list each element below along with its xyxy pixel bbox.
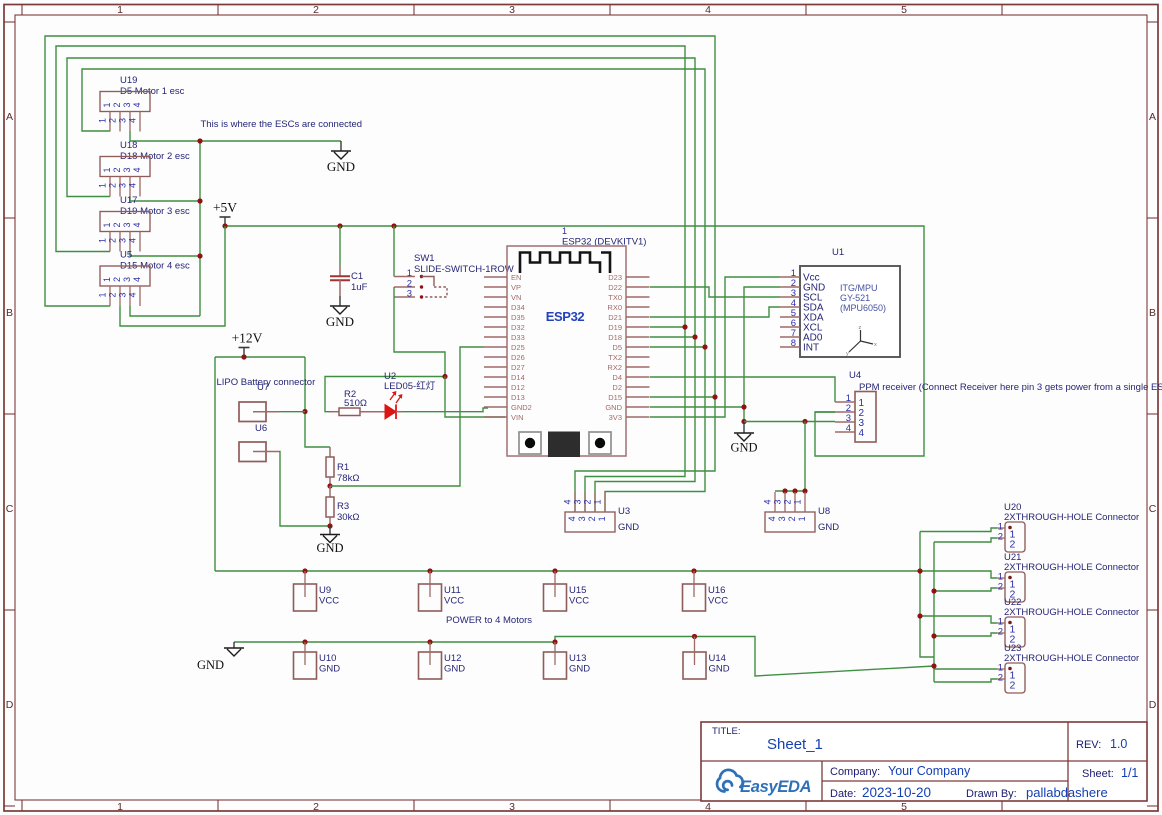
wire ESP32 D4 to U4 pin1 [650, 377, 835, 402]
svg-text:1: 1 [797, 516, 807, 521]
svg-text:VIN: VIN [511, 413, 524, 422]
junction U10 GND [302, 639, 307, 644]
wire U22 pin1 [920, 616, 997, 623]
junction +5V node [222, 223, 227, 228]
svg-text:TITLE:: TITLE: [712, 726, 741, 737]
wire U20 pin1 [920, 528, 997, 532]
connector U21 [997, 572, 1025, 603]
svg-text:1: 1 [117, 4, 123, 16]
svg-text:RX0: RX0 [607, 303, 622, 312]
wire +5V to U5 pin2 [120, 226, 225, 326]
connector U7 (battery +) [239, 402, 279, 422]
wire ground chain vertical to U1 GND [744, 287, 780, 422]
svg-text:x: x [874, 342, 877, 348]
svg-text:1uF: 1uF [351, 282, 368, 293]
svg-text:2: 2 [108, 238, 118, 243]
svg-text:GND: GND [730, 441, 757, 455]
wire ESC ground bus vertical [199, 141, 201, 316]
wire U18 pin3 to bus [130, 197, 200, 202]
svg-text:PPM receiver (Connect Receiver: PPM receiver (Connect Receiver here pin … [859, 382, 1162, 393]
svg-text:D33: D33 [511, 333, 525, 342]
svg-text:2: 2 [108, 292, 118, 297]
resistor R2 [330, 408, 385, 416]
svg-text:Drawn By:: Drawn By: [966, 788, 1017, 800]
junction harness GND diagonal [931, 663, 936, 668]
svg-text:3: 3 [577, 516, 587, 521]
connector U11 (VCC) [419, 571, 442, 611]
ground below C1 [326, 296, 354, 329]
svg-text:5: 5 [901, 4, 907, 16]
wire ESP32 D15 pin to net [650, 396, 715, 398]
svg-text:U4: U4 [849, 370, 861, 381]
svg-text:78kΩ: 78kΩ [337, 473, 359, 484]
junction +5V rail at SW1 [391, 223, 396, 228]
svg-text:VCC: VCC [444, 596, 464, 607]
svg-text:3: 3 [122, 277, 132, 282]
svg-text:1: 1 [98, 118, 108, 123]
svg-text:2: 2 [783, 499, 793, 504]
svg-text:D4: D4 [612, 373, 622, 382]
svg-text:1: 1 [793, 499, 803, 504]
svg-text:U19: U19 [120, 75, 137, 86]
svg-text:D26: D26 [511, 353, 525, 362]
svg-text:VCC: VCC [319, 596, 339, 607]
svg-text:C: C [1149, 503, 1157, 515]
junction U4 pin3 / U8 column [802, 419, 807, 424]
svg-text:4: 4 [705, 4, 711, 16]
svg-text:3: 3 [118, 183, 128, 188]
svg-text:1: 1 [593, 499, 603, 504]
svg-text:D25: D25 [511, 343, 525, 352]
svg-text:2: 2 [108, 183, 118, 188]
svg-text:3V3: 3V3 [609, 413, 622, 422]
junction ESC gnd 3 [197, 253, 202, 258]
svg-text:GND: GND [818, 522, 839, 533]
svg-text:B: B [6, 307, 13, 319]
svg-text:2XTHROUGH-HOLE Connector: 2XTHROUGH-HOLE Connector [1004, 607, 1139, 618]
svg-text:4: 4 [563, 499, 573, 504]
svg-text:U11: U11 [444, 585, 461, 596]
svg-text:U6: U6 [255, 423, 267, 434]
svg-text:D14: D14 [511, 373, 525, 382]
svg-text:U14: U14 [709, 653, 726, 664]
connector U8 [763, 492, 816, 532]
junction U8 pin3 [782, 488, 787, 493]
connector U4 PPM receiver [835, 392, 876, 443]
wire GND rail left [234, 637, 934, 677]
svg-text:U8: U8 [818, 506, 830, 517]
wire D5 net (U19 pin1 to ESP32 D5 and U3 pin1) [82, 69, 705, 512]
svg-text:30kΩ: 30kΩ [337, 512, 359, 523]
junction U11 VCC [427, 568, 432, 573]
svg-text:2: 2 [998, 582, 1003, 593]
wire ESP32 D19 pin to net [650, 326, 685, 328]
svg-text:U9: U9 [319, 585, 331, 596]
junction U9 VCC [302, 568, 307, 573]
wire right harness column A [920, 532, 934, 658]
svg-text:A: A [1149, 111, 1156, 123]
wire D15 net (U5 pin1 to ESP32 D15 and U3 pin4) [45, 36, 715, 512]
svg-text:GND: GND [605, 403, 622, 412]
svg-text:1: 1 [102, 102, 112, 107]
svg-text:D22: D22 [608, 283, 622, 292]
wire U22 pin2 [934, 633, 997, 636]
svg-text:3: 3 [407, 289, 412, 300]
svg-text:D21: D21 [608, 313, 622, 322]
svg-text:SLIDE-SWITCH-1ROW: SLIDE-SWITCH-1ROW [414, 264, 514, 275]
svg-text:2: 2 [998, 627, 1003, 638]
svg-text:TX2: TX2 [608, 353, 622, 362]
svg-text:+12V: +12V [232, 331, 263, 346]
svg-text:C: C [6, 503, 14, 515]
svg-text:3: 3 [118, 238, 128, 243]
svg-text:D23: D23 [608, 273, 622, 282]
svg-text:D35: D35 [511, 313, 525, 322]
svg-text:2: 2 [583, 499, 593, 504]
wire SW1 pin2 to VIN node [394, 287, 445, 377]
connector U10 (GND) [294, 642, 317, 679]
svg-text:D: D [1149, 699, 1157, 711]
svg-text:3: 3 [573, 499, 583, 504]
svg-text:GND: GND [709, 664, 730, 675]
svg-text:2: 2 [108, 118, 118, 123]
svg-text:4: 4 [132, 167, 142, 172]
junction ESC gnd 2 [197, 198, 202, 203]
svg-text:2: 2 [587, 516, 597, 521]
wire U17 pin3 to bus [130, 252, 200, 257]
svg-text:U12: U12 [444, 653, 461, 664]
resistor R3 [326, 486, 334, 526]
connector U9 (VCC) [294, 571, 317, 611]
svg-text:D2: D2 [612, 383, 622, 392]
wire ground chain to U4 pin3 [744, 421, 835, 423]
svg-text:1: 1 [407, 268, 412, 279]
svg-text:D34: D34 [511, 303, 525, 312]
svg-text:2: 2 [112, 102, 122, 107]
svg-text:1: 1 [117, 801, 123, 813]
svg-text:2XTHROUGH-HOLE Connector: 2XTHROUGH-HOLE Connector [1004, 653, 1139, 664]
svg-text:D13: D13 [511, 393, 525, 402]
svg-text:GND: GND [197, 658, 224, 672]
connector U3 [563, 492, 616, 532]
svg-text:This is where the ESCs are con: This is where the ESCs are connected [201, 119, 363, 130]
svg-text:2: 2 [112, 167, 122, 172]
wire U20 pin2 [934, 538, 997, 542]
svg-text:Your Company: Your Company [888, 764, 971, 778]
svg-text:1: 1 [597, 516, 607, 521]
connector U16 (VCC) [683, 571, 706, 611]
svg-text:EasyEDA: EasyEDA [740, 778, 811, 796]
svg-text:U7: U7 [257, 382, 269, 393]
wire ESP32 GND to ground chain [650, 406, 744, 408]
wire ESC ground bus U19 pin3 to GND [130, 131, 341, 141]
wire +12V right rail down [305, 357, 330, 447]
ground below ESP32 right [730, 422, 757, 455]
svg-text:U15: U15 [569, 585, 586, 596]
wire VIN node down to ESP32 VIN [445, 377, 505, 418]
svg-text:R3: R3 [337, 501, 349, 512]
junction D19 [682, 324, 687, 329]
power symbol +5V [213, 200, 237, 226]
EasyEDA logo [717, 770, 811, 796]
svg-text:INT: INT [803, 343, 819, 354]
junction U8 pin2 [792, 488, 797, 493]
svg-text:U16: U16 [708, 585, 725, 596]
junction ESC gnd 1 [197, 138, 202, 143]
svg-text:U13: U13 [569, 653, 586, 664]
connector U22 [997, 617, 1025, 648]
wire D18 net (U18 pin1 to ESP32 D18 and U3 pin2) [67, 58, 695, 512]
svg-text:4: 4 [705, 801, 711, 813]
wire U23 pin1 [934, 668, 997, 670]
svg-text:VCC: VCC [569, 596, 589, 607]
junction U16 VCC [691, 568, 696, 573]
svg-text:D12: D12 [511, 383, 525, 392]
svg-text:LED05-红灯: LED05-红灯 [384, 380, 436, 392]
wire D19 net (U17 pin1 to ESP32 D19 and U3 pin3) [56, 46, 685, 512]
switch SW1 [394, 268, 447, 300]
junction D5 [702, 344, 707, 349]
svg-text:D19: D19 [608, 323, 622, 332]
svg-text:GND2: GND2 [511, 403, 532, 412]
junction U14 GND [692, 634, 697, 639]
junction U15 VCC [552, 568, 557, 573]
connector U23 [997, 663, 1025, 694]
svg-text:VN: VN [511, 293, 521, 302]
svg-text:RX2: RX2 [607, 363, 622, 372]
svg-text:4: 4 [128, 118, 138, 123]
svg-text:Date:: Date: [830, 788, 856, 800]
svg-text:ITG/MPU: ITG/MPU [840, 283, 878, 293]
wire D21 to U1 SDA [650, 307, 780, 317]
wire +5V rail [225, 226, 924, 456]
svg-text:4: 4 [767, 516, 777, 521]
wire ESP32 D18 pin to net [650, 336, 695, 338]
connector U18 [98, 157, 151, 197]
wire +12V left rail down to VCC rail [214, 357, 216, 571]
svg-text:4: 4 [132, 277, 142, 282]
svg-text:SW1: SW1 [414, 253, 435, 264]
connector U5 [98, 266, 151, 306]
svg-text:GND: GND [316, 541, 343, 555]
svg-text:3: 3 [773, 499, 783, 504]
wire U21 pin2 [934, 588, 997, 591]
svg-text:VCC: VCC [708, 596, 728, 607]
wire U21 pin1 [920, 571, 997, 578]
svg-text:2: 2 [1010, 539, 1016, 551]
LED U2 [385, 392, 402, 419]
svg-text:2: 2 [313, 801, 319, 813]
junction R1/R3 midpoint [327, 483, 332, 488]
connector U14 (GND) [683, 637, 706, 680]
svg-text:EN: EN [511, 273, 521, 282]
wire LED cathode to ESP32 GND2 [402, 408, 488, 412]
junction U13 GND [552, 639, 557, 644]
svg-text:Company:: Company: [830, 766, 880, 778]
svg-text:4: 4 [763, 499, 773, 504]
wire U4 pin2 from +5V loop [815, 411, 835, 413]
junction U8 pin1 [802, 488, 807, 493]
svg-text:3: 3 [122, 222, 132, 227]
wire right harness column B [933, 542, 935, 682]
connector U12 (GND) [419, 642, 442, 679]
svg-text:2: 2 [787, 516, 797, 521]
ESP32 module U-ESP32 [484, 246, 650, 457]
connector U6 (battery -) [239, 442, 279, 462]
svg-text:D32: D32 [511, 323, 525, 332]
wire +12V rail horizontal [215, 356, 305, 358]
svg-text:510Ω: 510Ω [344, 398, 367, 409]
svg-text:GND: GND [569, 664, 590, 675]
svg-text:pallabdashere: pallabdashere [1026, 785, 1108, 800]
svg-text:4: 4 [128, 292, 138, 297]
svg-text:2: 2 [112, 222, 122, 227]
IC U1 MPU6050 [780, 266, 900, 357]
connector U13 (GND) [544, 642, 567, 679]
svg-text:3: 3 [777, 516, 787, 521]
ground symbol near ESCs [327, 141, 355, 174]
junction D15 [712, 394, 717, 399]
svg-text:2: 2 [998, 532, 1003, 543]
svg-text:3: 3 [122, 167, 132, 172]
svg-text:R1: R1 [337, 462, 349, 473]
svg-text:1: 1 [98, 238, 108, 243]
svg-text:4: 4 [132, 222, 142, 227]
wire U6 pin to ground node [279, 452, 330, 527]
svg-text:4: 4 [846, 423, 851, 434]
wire +5V to C1 [339, 226, 341, 266]
svg-text:1: 1 [562, 226, 567, 236]
svg-text:A: A [6, 111, 13, 123]
svg-text:(MPU6050): (MPU6050) [840, 303, 886, 313]
svg-text:2: 2 [998, 673, 1003, 684]
connector U20 [997, 522, 1025, 553]
svg-text:GND: GND [618, 522, 639, 533]
svg-text:D18: D18 [608, 333, 622, 342]
svg-text:D15: D15 [608, 393, 622, 402]
svg-text:3: 3 [509, 4, 515, 16]
svg-text:GY-521: GY-521 [840, 293, 870, 303]
svg-text:2XTHROUGH-HOLE Connector: 2XTHROUGH-HOLE Connector [1004, 512, 1139, 523]
junction harness VCC [917, 568, 922, 573]
wire ESP32 D5 pin to net [650, 346, 705, 348]
svg-text:1: 1 [102, 222, 112, 227]
svg-text:2: 2 [313, 4, 319, 16]
ground bottom-left [197, 642, 244, 672]
wire VIN node to R2 [325, 377, 445, 412]
svg-text:C1: C1 [351, 271, 363, 282]
junction VIN node [442, 374, 447, 379]
svg-text:U3: U3 [618, 506, 630, 517]
svg-text:4: 4 [859, 428, 865, 439]
svg-text:U10: U10 [319, 653, 336, 664]
wire across U8 pins [775, 490, 805, 492]
svg-text:2XTHROUGH-HOLE Connector: 2XTHROUGH-HOLE Connector [1004, 562, 1139, 573]
svg-text:8: 8 [791, 338, 796, 349]
junction ground chain at ESP32 GND [741, 404, 746, 409]
junction U12 GND [427, 639, 432, 644]
svg-text:GND: GND [326, 314, 354, 329]
svg-text:1: 1 [102, 277, 112, 282]
wire U7 pin to +12V rail [279, 411, 305, 413]
svg-text:4: 4 [128, 183, 138, 188]
ground below R3 [316, 526, 343, 555]
connector U15 (VCC) [544, 571, 567, 611]
svg-text:D: D [6, 699, 14, 711]
svg-text:D27: D27 [511, 363, 525, 372]
svg-text:Sheet:: Sheet: [1082, 768, 1114, 780]
junction ground chain at PPM pin3 wire [741, 419, 746, 424]
wire divider mid to ESP32 D25 [330, 347, 484, 486]
svg-text:REV:: REV: [1076, 739, 1101, 751]
svg-text:1: 1 [98, 292, 108, 297]
svg-text:y: y [846, 351, 849, 357]
svg-text:3: 3 [509, 801, 515, 813]
junction battery U7 pin [302, 409, 307, 414]
svg-text:U5: U5 [120, 250, 132, 261]
svg-text:4: 4 [128, 238, 138, 243]
svg-text:ESP32: ESP32 [546, 309, 585, 324]
svg-text:GND: GND [319, 664, 340, 675]
svg-text:U18: U18 [120, 140, 137, 151]
svg-text:4: 4 [567, 516, 577, 521]
junction harness U22 pin2 [931, 633, 936, 638]
junction D18 [692, 334, 697, 339]
svg-text:TX0: TX0 [608, 293, 622, 302]
wire U5 pin3 to bus [130, 306, 200, 316]
power symbol +12V [232, 331, 263, 358]
svg-text:+5V: +5V [213, 200, 237, 215]
svg-text:D5: D5 [612, 343, 622, 352]
svg-text:1: 1 [98, 183, 108, 188]
svg-text:1.0: 1.0 [1110, 737, 1127, 751]
svg-text:2: 2 [112, 277, 122, 282]
svg-text:U1: U1 [832, 247, 844, 258]
wire D22 to U1 SCL [650, 287, 780, 297]
svg-text:5: 5 [901, 801, 907, 813]
svg-text:VP: VP [511, 283, 521, 292]
junction R3 bottom [327, 523, 332, 528]
junction +12V [241, 354, 246, 359]
junction harness U21 pin2 [931, 588, 936, 593]
svg-text:3: 3 [118, 118, 128, 123]
junction harness U22 pin1 [917, 613, 922, 618]
svg-text:z: z [859, 325, 862, 331]
wire U8 column from U4 pin3 node [804, 422, 806, 492]
wire VCC rail (battery + to motor connectors) [215, 570, 920, 572]
svg-text:U17: U17 [120, 195, 137, 206]
svg-text:GND: GND [327, 159, 355, 174]
svg-text:1/1: 1/1 [1121, 766, 1138, 780]
svg-text:Sheet_1: Sheet_1 [767, 736, 823, 753]
svg-text:B: B [1149, 307, 1156, 319]
connector U19 [98, 92, 151, 132]
junction +5V rail at C1 [337, 223, 342, 228]
wire U23 pin2 [934, 679, 997, 682]
svg-text:3: 3 [122, 102, 132, 107]
svg-text:3: 3 [118, 292, 128, 297]
connector U17 [98, 212, 151, 252]
svg-text:2023-10-20: 2023-10-20 [862, 785, 931, 800]
resistor R1 [326, 447, 334, 486]
wire 3V3 to U1 Vcc [650, 277, 780, 417]
capacitor C1 [330, 266, 350, 296]
svg-text:GND: GND [444, 664, 465, 675]
wire +5V drop to SW1 pin1 [393, 226, 395, 277]
svg-text:POWER to 4 Motors: POWER to 4 Motors [446, 615, 532, 626]
svg-text:4: 4 [132, 102, 142, 107]
title block [701, 722, 1147, 801]
